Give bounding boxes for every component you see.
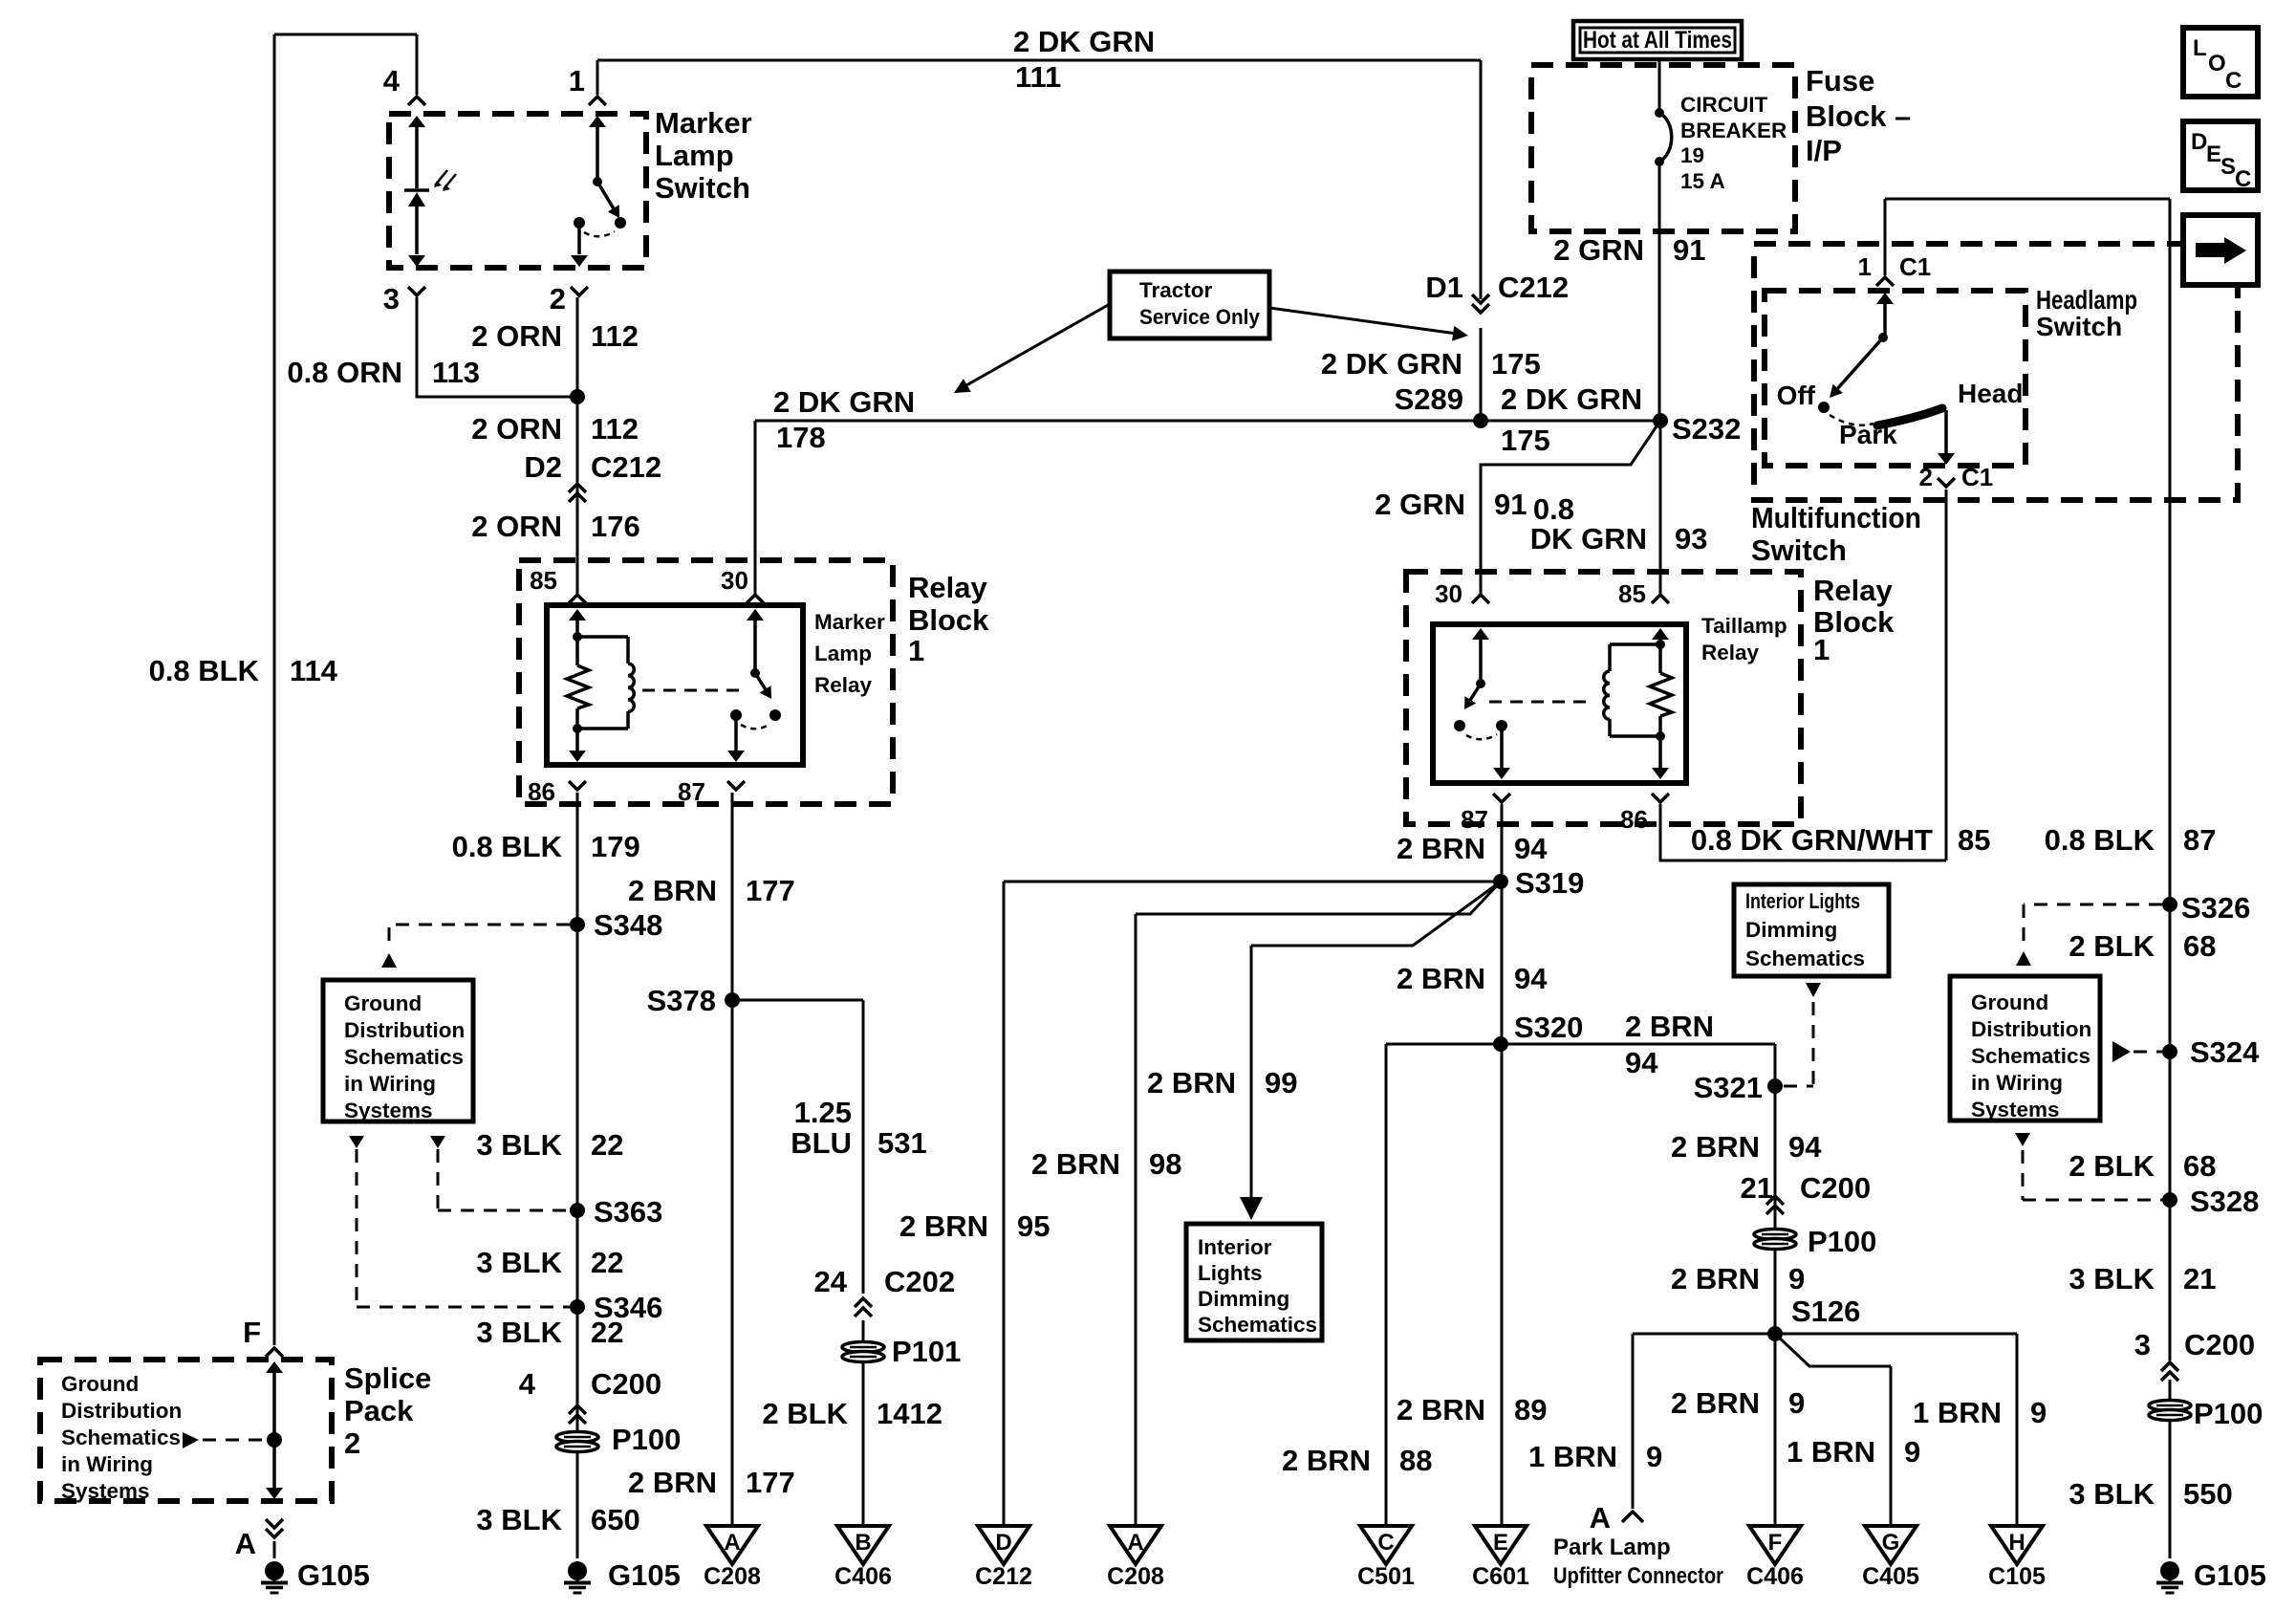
svg-text:3: 3 (383, 282, 400, 316)
svg-text:A: A (724, 1530, 740, 1556)
svg-text:C202: C202 (884, 1265, 955, 1298)
svg-text:113: 113 (432, 356, 480, 389)
svg-text:2 ORN: 2 ORN (471, 412, 562, 446)
svg-text:CIRCUIT: CIRCUIT (1680, 93, 1767, 117)
svg-text:C105: C105 (1988, 1563, 2046, 1590)
svg-text:G105: G105 (608, 1558, 681, 1592)
svg-text:S326: S326 (2181, 891, 2250, 925)
svg-text:G105: G105 (2194, 1558, 2266, 1592)
svg-text:2: 2 (344, 1426, 360, 1460)
svg-text:C: C (2235, 166, 2251, 192)
svg-text:Distribution: Distribution (1971, 1017, 2091, 1041)
svg-text:98: 98 (1149, 1147, 1181, 1181)
svg-text:99: 99 (1265, 1066, 1297, 1099)
svg-text:C208: C208 (704, 1563, 761, 1590)
svg-text:D2: D2 (524, 450, 562, 484)
svg-text:F: F (243, 1316, 261, 1349)
svg-text:P100: P100 (2194, 1397, 2263, 1430)
svg-text:24: 24 (814, 1265, 848, 1298)
svg-text:Lamp: Lamp (655, 139, 734, 172)
svg-text:2 BRN: 2 BRN (628, 1466, 717, 1499)
svg-text:S232: S232 (1672, 412, 1741, 446)
svg-text:Hot at All Times: Hot at All Times (1583, 27, 1732, 54)
svg-text:1: 1 (1813, 633, 1830, 666)
svg-text:9: 9 (2030, 1396, 2047, 1429)
svg-text:21: 21 (1741, 1171, 1773, 1205)
svg-text:114: 114 (290, 654, 338, 687)
svg-text:G: G (1882, 1530, 1900, 1556)
svg-text:Multifunction: Multifunction (1751, 501, 1921, 534)
svg-text:1412: 1412 (877, 1397, 942, 1430)
svg-text:112: 112 (591, 412, 639, 446)
svg-text:P101: P101 (892, 1335, 961, 1368)
svg-text:0.8 BLK: 0.8 BLK (2045, 823, 2155, 857)
svg-text:2 BRN: 2 BRN (1671, 1262, 1760, 1295)
svg-text:Head: Head (1958, 379, 2023, 408)
svg-text:9: 9 (1788, 1386, 1805, 1420)
svg-text:177: 177 (746, 1466, 795, 1499)
svg-text:Marker: Marker (655, 106, 752, 140)
svg-text:S: S (2220, 154, 2236, 180)
svg-text:3 BLK: 3 BLK (476, 1128, 562, 1162)
svg-text:178: 178 (776, 421, 826, 454)
svg-text:9: 9 (1904, 1435, 1920, 1469)
svg-text:in Wiring: in Wiring (344, 1072, 436, 1096)
svg-text:Tractor: Tractor (1139, 278, 1213, 302)
svg-text:S348: S348 (594, 908, 662, 942)
svg-text:176: 176 (591, 510, 640, 543)
svg-text:Schematics: Schematics (1745, 947, 1865, 970)
svg-text:C: C (1377, 1530, 1394, 1556)
svg-text:1.25: 1.25 (794, 1096, 852, 1129)
svg-text:C405: C405 (1862, 1563, 1919, 1590)
svg-text:87: 87 (678, 777, 705, 806)
svg-text:1: 1 (569, 64, 585, 98)
svg-text:Fuse: Fuse (1806, 64, 1874, 98)
svg-text:C200: C200 (2184, 1328, 2255, 1361)
svg-text:Relay: Relay (814, 673, 873, 697)
svg-text:DK GRN: DK GRN (1530, 522, 1647, 555)
svg-text:111: 111 (1015, 60, 1061, 94)
svg-text:D1: D1 (1425, 271, 1463, 304)
svg-text:Relay: Relay (908, 571, 987, 604)
svg-text:179: 179 (591, 830, 640, 863)
svg-text:A: A (1127, 1530, 1143, 1556)
svg-text:2: 2 (1919, 463, 1933, 491)
svg-text:94: 94 (1625, 1046, 1658, 1079)
svg-text:85: 85 (530, 566, 557, 595)
svg-text:Distribution: Distribution (344, 1018, 465, 1042)
svg-text:3: 3 (2134, 1328, 2151, 1361)
svg-text:4: 4 (383, 64, 401, 98)
svg-text:550: 550 (2183, 1477, 2233, 1511)
svg-text:2 DK GRN: 2 DK GRN (773, 385, 915, 419)
svg-text:Systems: Systems (1971, 1098, 2060, 1121)
svg-text:2 BLK: 2 BLK (762, 1397, 848, 1430)
svg-text:0.8 DK GRN/WHT: 0.8 DK GRN/WHT (1691, 823, 1933, 857)
svg-text:30: 30 (721, 566, 748, 595)
svg-text:177: 177 (746, 874, 795, 907)
svg-text:S321: S321 (1694, 1071, 1763, 1104)
svg-text:Schematics: Schematics (1971, 1044, 2090, 1068)
svg-text:C200: C200 (1800, 1171, 1871, 1205)
svg-text:3 BLK: 3 BLK (2069, 1262, 2155, 1295)
svg-text:2 BRN: 2 BRN (1397, 832, 1485, 865)
svg-text:88: 88 (1399, 1444, 1432, 1477)
svg-text:3 BLK: 3 BLK (476, 1246, 562, 1279)
svg-text:C601: C601 (1472, 1563, 1529, 1590)
svg-text:2 BRN: 2 BRN (1282, 1444, 1371, 1477)
svg-text:Taillamp: Taillamp (1701, 614, 1787, 638)
svg-text:19: 19 (1680, 143, 1704, 167)
svg-text:Splice: Splice (344, 1361, 431, 1395)
svg-text:1: 1 (1858, 252, 1872, 281)
svg-text:Ground: Ground (1971, 991, 2048, 1014)
svg-text:C200: C200 (591, 1367, 661, 1401)
svg-text:S328: S328 (2190, 1185, 2259, 1218)
svg-text:Switch: Switch (2036, 312, 2122, 341)
svg-text:2 GRN: 2 GRN (1375, 488, 1465, 521)
svg-text:2 BLK: 2 BLK (2069, 1149, 2155, 1183)
svg-text:175: 175 (1501, 424, 1550, 457)
svg-text:9: 9 (1788, 1262, 1805, 1295)
svg-text:C212: C212 (1498, 271, 1569, 304)
svg-text:87: 87 (2183, 823, 2216, 857)
svg-text:S324: S324 (2190, 1035, 2260, 1069)
svg-text:Schematics: Schematics (61, 1426, 181, 1449)
svg-text:Schematics: Schematics (1198, 1313, 1317, 1337)
svg-text:85: 85 (1958, 823, 1990, 857)
svg-text:Relay: Relay (1701, 641, 1760, 664)
svg-text:L: L (2193, 35, 2207, 61)
svg-text:68: 68 (2183, 1149, 2216, 1183)
svg-text:A: A (235, 1527, 256, 1560)
svg-text:C406: C406 (1746, 1563, 1804, 1590)
svg-text:Ground: Ground (344, 991, 422, 1015)
svg-text:30: 30 (1435, 579, 1462, 608)
svg-text:C208: C208 (1107, 1563, 1164, 1590)
svg-text:2 DK GRN: 2 DK GRN (1321, 347, 1462, 381)
svg-text:BREAKER: BREAKER (1680, 119, 1787, 142)
svg-text:Upfitter Connector: Upfitter Connector (1553, 1563, 1723, 1589)
svg-text:S126: S126 (1791, 1295, 1860, 1328)
svg-text:93: 93 (1675, 522, 1707, 555)
svg-text:22: 22 (591, 1316, 623, 1349)
svg-text:D: D (995, 1530, 1011, 1556)
svg-text:91: 91 (1494, 488, 1527, 521)
svg-text:1 BRN: 1 BRN (1528, 1440, 1617, 1473)
svg-text:3 BLK: 3 BLK (476, 1316, 562, 1349)
svg-text:0.8 BLK: 0.8 BLK (452, 830, 563, 863)
svg-text:85: 85 (1618, 579, 1646, 608)
svg-text:531: 531 (877, 1126, 927, 1160)
svg-text:2 BRN: 2 BRN (1671, 1386, 1760, 1420)
svg-text:Dimming: Dimming (1745, 918, 1837, 942)
svg-text:Park: Park (1839, 420, 1897, 449)
svg-text:2 BRN: 2 BRN (1397, 1393, 1485, 1426)
svg-text:94: 94 (1788, 1130, 1822, 1164)
svg-text:Block: Block (908, 603, 989, 637)
svg-text:P100: P100 (612, 1423, 681, 1456)
svg-text:2 BRN: 2 BRN (899, 1209, 988, 1243)
svg-text:E: E (2206, 142, 2221, 167)
svg-text:D: D (2191, 129, 2207, 155)
svg-text:2 ORN: 2 ORN (471, 319, 562, 353)
svg-text:S320: S320 (1514, 1011, 1583, 1044)
svg-text:BLU: BLU (791, 1126, 852, 1160)
svg-text:O: O (2208, 51, 2226, 76)
svg-text:C212: C212 (591, 450, 661, 484)
svg-text:Marker: Marker (814, 610, 885, 634)
svg-text:89: 89 (1514, 1393, 1547, 1426)
svg-text:Switch: Switch (1751, 533, 1847, 567)
svg-text:3 BLK: 3 BLK (2069, 1477, 2155, 1511)
svg-text:C501: C501 (1357, 1563, 1415, 1590)
svg-text:C: C (2225, 68, 2242, 94)
svg-text:C212: C212 (975, 1563, 1032, 1590)
svg-text:3 BLK: 3 BLK (476, 1503, 562, 1536)
svg-text:650: 650 (591, 1503, 640, 1536)
svg-text:Park Lamp: Park Lamp (1553, 1535, 1671, 1560)
svg-text:2 BRN: 2 BRN (1625, 1010, 1714, 1043)
svg-text:2 BRN: 2 BRN (628, 874, 717, 907)
svg-text:4: 4 (519, 1367, 536, 1401)
svg-text:91: 91 (1673, 233, 1705, 267)
svg-text:A: A (1590, 1501, 1611, 1535)
svg-text:Switch: Switch (655, 171, 750, 205)
svg-text:2 DK GRN: 2 DK GRN (1013, 25, 1155, 58)
svg-text:94: 94 (1514, 832, 1548, 865)
svg-text:Block –: Block – (1806, 99, 1911, 133)
svg-text:9: 9 (1646, 1440, 1662, 1473)
svg-text:Pack: Pack (344, 1394, 414, 1427)
svg-text:S319: S319 (1515, 866, 1584, 900)
svg-text:22: 22 (591, 1246, 623, 1279)
svg-text:2 BLK: 2 BLK (2069, 929, 2155, 963)
svg-text:B: B (855, 1530, 871, 1556)
svg-text:Systems: Systems (61, 1479, 150, 1503)
svg-text:Relay: Relay (1813, 574, 1893, 607)
svg-text:S289: S289 (1395, 382, 1463, 416)
svg-text:15 A: 15 A (1680, 169, 1725, 193)
svg-text:95: 95 (1017, 1209, 1050, 1243)
svg-text:C1: C1 (1899, 252, 1931, 281)
svg-text:S378: S378 (647, 984, 716, 1017)
svg-text:86: 86 (528, 777, 555, 806)
svg-text:I/P: I/P (1806, 134, 1842, 167)
svg-text:2 BRN: 2 BRN (1147, 1066, 1236, 1099)
svg-text:0.8 BLK: 0.8 BLK (149, 654, 260, 687)
svg-text:C1: C1 (1961, 463, 1993, 491)
svg-text:1 BRN: 1 BRN (1913, 1396, 2002, 1429)
svg-text:2 GRN: 2 GRN (1553, 233, 1644, 267)
svg-text:Ground: Ground (61, 1372, 139, 1396)
svg-text:G105: G105 (297, 1558, 370, 1592)
svg-text:P100: P100 (1808, 1225, 1876, 1258)
svg-text:175: 175 (1491, 347, 1541, 381)
svg-text:22: 22 (591, 1128, 623, 1162)
svg-text:112: 112 (591, 319, 639, 353)
svg-text:H: H (2008, 1530, 2025, 1556)
svg-text:Interior: Interior (1198, 1235, 1272, 1259)
svg-text:2 BRN: 2 BRN (1031, 1147, 1120, 1181)
svg-text:Distribution: Distribution (61, 1399, 182, 1423)
svg-text:1 BRN: 1 BRN (1787, 1435, 1875, 1469)
svg-text:Lights: Lights (1198, 1261, 1263, 1285)
svg-text:Systems: Systems (344, 1099, 433, 1122)
svg-text:2 BRN: 2 BRN (1671, 1130, 1760, 1164)
svg-text:2 DK GRN: 2 DK GRN (1501, 382, 1642, 416)
svg-text:Schematics: Schematics (344, 1045, 464, 1069)
svg-text:68: 68 (2183, 929, 2216, 963)
svg-text:94: 94 (1514, 962, 1548, 995)
svg-text:2: 2 (550, 282, 566, 316)
svg-text:C406: C406 (834, 1563, 892, 1590)
svg-text:E: E (1493, 1530, 1508, 1556)
svg-text:Lamp: Lamp (814, 642, 872, 665)
svg-text:Interior Lights: Interior Lights (1745, 889, 1860, 913)
svg-text:2 BRN: 2 BRN (1397, 962, 1485, 995)
svg-text:86: 86 (1620, 805, 1648, 834)
svg-text:0.8: 0.8 (1533, 492, 1574, 526)
svg-text:F: F (1768, 1530, 1783, 1556)
svg-text:Off: Off (1777, 381, 1816, 410)
svg-text:Headlamp: Headlamp (2036, 285, 2137, 315)
svg-text:87: 87 (1461, 805, 1488, 834)
svg-text:S363: S363 (594, 1195, 662, 1229)
svg-text:1: 1 (908, 634, 924, 667)
svg-text:in Wiring: in Wiring (61, 1452, 153, 1476)
svg-text:2 ORN: 2 ORN (471, 510, 562, 543)
svg-text:21: 21 (2183, 1262, 2216, 1295)
svg-text:Dimming: Dimming (1198, 1287, 1289, 1311)
svg-text:0.8 ORN: 0.8 ORN (287, 356, 402, 389)
svg-text:in Wiring: in Wiring (1971, 1071, 2063, 1095)
svg-text:Service Only: Service Only (1139, 305, 1260, 329)
